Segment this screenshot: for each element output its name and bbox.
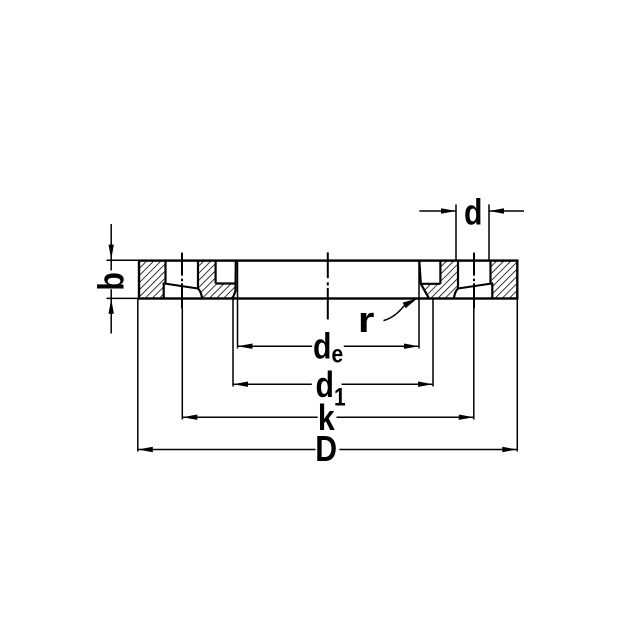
- left bolt hole draft cone edge: [198, 289, 202, 298]
- arrow d left (right-pointing): [441, 208, 456, 213]
- left bolt hole centerline: [181, 253, 183, 309]
- extension line k right: [473, 309, 475, 420]
- left bolt hole right wall: [197, 261, 199, 289]
- arrow D left: [138, 447, 153, 452]
- bore right wall: [419, 261, 428, 298]
- extension line d1 right: [432, 298, 434, 386]
- arrow k left: [182, 415, 197, 420]
- right bolt hole draft cone edge: [454, 289, 458, 298]
- arrow D right: [502, 447, 517, 452]
- arrow de right: [404, 344, 419, 349]
- top recess left wall: [215, 261, 217, 284]
- extension line D left: [137, 298, 139, 451]
- extension line D right: [516, 298, 518, 451]
- extension line de right: [418, 262, 420, 349]
- extension line d right: [488, 204, 490, 259]
- dimension line b lower segment: [110, 289, 112, 333]
- left bolt hole counterbore step line: [163, 283, 198, 288]
- svg-text:d: d: [464, 193, 482, 233]
- right bolt hole lower-right wall: [491, 283, 493, 297]
- arrow d right (left-pointing): [489, 208, 504, 213]
- dimension line k right segment: [337, 416, 474, 418]
- top recess bottom right: [421, 283, 441, 285]
- flange hatched segment between left bolt hole and recess: [198, 261, 236, 298]
- extension line d left: [455, 204, 457, 259]
- arrow b top (down): [109, 245, 114, 260]
- right bolt hole centerline: [473, 253, 475, 309]
- dimension line D left segment: [138, 449, 316, 451]
- leader line r: [384, 305, 405, 320]
- flange vertical centerline: [327, 252, 329, 319]
- right bolt hole left wall: [457, 261, 459, 289]
- dimension line de right segment: [344, 345, 419, 347]
- dimension line d left segment: [419, 210, 456, 212]
- right bolt hole right wall: [489, 261, 491, 284]
- bore left wall: [233, 261, 236, 298]
- arrow de left: [238, 344, 253, 349]
- extension line b bottom: [107, 297, 140, 299]
- extension line b top: [107, 259, 140, 261]
- dimension line b upper segment: [110, 224, 112, 271]
- dimension line d right segment: [489, 210, 524, 212]
- top recess right wall: [439, 261, 441, 284]
- svg-text:b: b: [92, 272, 132, 290]
- dimension line k left segment: [182, 416, 317, 418]
- arrow k right: [459, 415, 474, 420]
- right bolt hole counterbore step line: [458, 283, 493, 288]
- arrow d1 left: [233, 382, 248, 387]
- flange hatched segment between recess and right bolt hole: [421, 261, 458, 298]
- extension line d1 left: [232, 298, 234, 386]
- left bolt hole lower-left wall: [163, 283, 165, 297]
- flange hatched ring segment right outer: [491, 261, 518, 298]
- dimension line d1 left segment: [233, 383, 312, 385]
- leader arrow r: [403, 298, 418, 308]
- extension line k left: [181, 309, 183, 420]
- top recess bottom left: [216, 282, 236, 284]
- svg-text:D: D: [315, 430, 337, 470]
- extension line de left: [237, 262, 239, 349]
- left bolt hole left wall: [164, 261, 166, 284]
- dimension line d1 right segment: [342, 383, 434, 385]
- svg-text:r: r: [358, 300, 375, 340]
- dimension line D right segment: [339, 449, 517, 451]
- flange body outline: [139, 261, 517, 299]
- arrow b bottom (up): [109, 299, 114, 314]
- dimension line de left segment: [238, 345, 313, 347]
- flange hatched ring segment left outer: [139, 261, 166, 298]
- arrow d1 right: [418, 382, 433, 387]
